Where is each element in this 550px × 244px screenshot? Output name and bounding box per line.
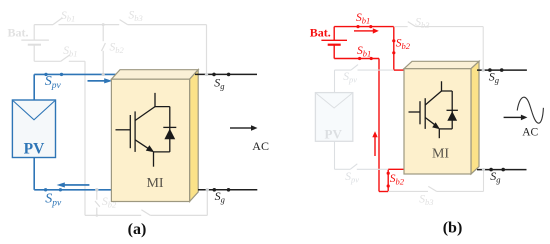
node Spv bottom 1 (a) bbox=[44, 188, 47, 191]
node Sg bottom 2 (a) bbox=[227, 188, 231, 192]
arrow current return vertical (b) bbox=[372, 131, 377, 156]
svg-text:Sb1: Sb1 bbox=[357, 45, 371, 59]
wire MI top input (b) bbox=[394, 69, 405, 71]
PV chevron (a) bbox=[13, 101, 55, 120]
diode D1 line (a) bbox=[169, 107, 171, 152]
svg-text:Spv: Spv bbox=[345, 171, 359, 185]
node Spv top 1 (a) bbox=[44, 73, 47, 76]
svg-text:Sb2: Sb2 bbox=[110, 42, 125, 56]
node Sb1 second 2 (b) bbox=[370, 57, 373, 60]
svg-text:PV: PV bbox=[325, 127, 343, 142]
svg-text:MI: MI bbox=[432, 146, 449, 161]
node Sb1 second 1 (b) bbox=[358, 57, 361, 60]
wire MI bottom input (b) bbox=[388, 168, 405, 170]
wire Sb2 bottom branch (a) bbox=[96, 190, 98, 216]
wire Sg top (b) bbox=[477, 69, 527, 71]
switch Spv top lever (b) bbox=[351, 65, 358, 71]
arrow AC (a) bbox=[230, 125, 258, 131]
svg-text:Sg: Sg bbox=[215, 189, 225, 205]
IGBT collector stub (b) bbox=[442, 81, 453, 91]
node Sb3 bottom on Sg wire overlay (b) bbox=[482, 168, 485, 171]
IGBT body bar (a) bbox=[134, 111, 136, 151]
switch Spv bottom lever (b) bbox=[350, 164, 357, 170]
svg-text:Spv: Spv bbox=[343, 71, 357, 85]
switch bottom rail lever (a) bbox=[141, 210, 150, 216]
node Sb2 top 2 (b) bbox=[392, 51, 395, 54]
svg-text:Sb3: Sb3 bbox=[129, 10, 143, 24]
IGBT bottom horizontal (a) bbox=[154, 151, 170, 153]
switch Sb2 bottom lever (a) bbox=[95, 201, 100, 207]
IGBT Q2 (b) bbox=[409, 81, 458, 138]
node Sb2 bottom 1 (b) bbox=[387, 172, 390, 175]
node Sg bottom 2 (b) bbox=[501, 168, 505, 172]
wire Sb3 bottom (b, faded) bbox=[388, 170, 483, 192]
node Sg top 1 (b) bbox=[488, 68, 492, 72]
MI inverter box (a) right face bbox=[190, 70, 199, 202]
IGBT gate lead (a) bbox=[116, 129, 131, 131]
arrow current bottom (a) bbox=[57, 182, 90, 187]
IGBT gate bar (a) bbox=[129, 115, 131, 148]
node junction top rail (a) bbox=[102, 23, 105, 26]
node Sg bottom 1 (a) bbox=[213, 188, 217, 192]
svg-text:(a): (a) bbox=[128, 221, 147, 238]
node Sg top 2 (a) bbox=[227, 73, 231, 77]
wire Sb2 top vertical (b) bbox=[393, 27, 395, 71]
svg-text:Sb2: Sb2 bbox=[390, 173, 405, 187]
MI inverter box (b) top face bbox=[404, 61, 479, 68]
IGBT gate lead (b) bbox=[409, 111, 421, 113]
wire PV bottom (a) bbox=[34, 158, 111, 190]
wire Sb3 top (b, faded) bbox=[394, 27, 483, 71]
svg-text:Sg: Sg bbox=[489, 69, 499, 85]
svg-text:Sb1: Sb1 bbox=[61, 10, 75, 24]
svg-text:Spv: Spv bbox=[45, 74, 62, 91]
node Sb2 top 1 (b) bbox=[392, 39, 395, 42]
IGBT emitter lead (a) bbox=[153, 152, 155, 167]
node top rail to Sg wire overlay (a) bbox=[205, 73, 208, 76]
wire return vertical (b) bbox=[378, 59, 380, 192]
IGBT collector stub (a) bbox=[155, 93, 170, 107]
wire bottom-rail right riser (a) bbox=[206, 190, 208, 216]
PV module (b, faded) bbox=[315, 93, 352, 142]
MI inverter box (b) front face bbox=[404, 69, 471, 174]
IGBT collector diagonal (a) bbox=[135, 107, 155, 121]
node Sb1 top 1 (b) bbox=[356, 25, 359, 28]
wire bottom jog (b) bbox=[379, 191, 388, 193]
svg-text:MI: MI bbox=[146, 176, 163, 191]
node Sb2 bottom 2 (b) bbox=[387, 184, 390, 187]
IGBT emitter diagonal (b) bbox=[425, 118, 435, 126]
wire Sb2 bottom vertical (b) bbox=[387, 169, 389, 191]
wire Sg bottom (b) bbox=[477, 169, 527, 171]
svg-text:Sb1: Sb1 bbox=[356, 12, 370, 26]
IGBT bottom horizontal (b) bbox=[439, 128, 452, 130]
IGBT emitter arrowhead (a) bbox=[146, 145, 154, 152]
svg-text:Sg: Sg bbox=[214, 75, 224, 91]
wire top rail (a) bbox=[34, 25, 206, 75]
svg-text:Sb1: Sb1 bbox=[63, 45, 77, 59]
wire second rail (b) bbox=[334, 59, 405, 192]
switch Sb2 top branch lever (a) bbox=[102, 43, 106, 51]
svg-text:Sb2: Sb2 bbox=[396, 38, 411, 52]
node Sg top 1 (a) bbox=[212, 73, 216, 77]
svg-text:AC: AC bbox=[522, 127, 538, 139]
svg-text:Sb3: Sb3 bbox=[419, 194, 433, 208]
arrow current top rail (b) bbox=[354, 28, 379, 33]
IGBT emitter arrowhead (b) bbox=[432, 122, 440, 129]
svg-text:Bat.: Bat. bbox=[310, 26, 331, 40]
svg-text:Bat.: Bat. bbox=[8, 25, 29, 39]
switch Sb3 bottom lever (b) bbox=[428, 186, 436, 191]
node Sb2 bottom on blue wire overlay (a) bbox=[95, 188, 98, 191]
IGBT Q1 (a) bbox=[116, 93, 177, 167]
node Sb2 bottom on rail (a) bbox=[96, 214, 99, 217]
svg-text:Sg: Sg bbox=[490, 169, 500, 185]
switch Sb3 top (a) lever bbox=[120, 20, 128, 25]
svg-text:Sb3: Sb3 bbox=[415, 17, 429, 31]
wire Sb2 top branch (a) bbox=[102, 25, 104, 75]
wire Sb3 bottom right riser (b) bbox=[483, 170, 485, 192]
MI inverter box (a) front face bbox=[111, 79, 189, 201]
wire PV top (b, faded) bbox=[335, 70, 394, 93]
IGBT collector diagonal (b) bbox=[425, 91, 441, 105]
MI inverter box (b) right face bbox=[471, 61, 479, 174]
diode D2 line (b) bbox=[451, 91, 453, 129]
node Sb1 top 2 (b) bbox=[369, 25, 372, 28]
node Sb3 on Sg wire overlay (b) bbox=[482, 69, 485, 72]
battery Bat (a, faded) bbox=[21, 25, 49, 62]
node Sg top 2 (b) bbox=[500, 68, 504, 72]
wire Sg top (a) bbox=[195, 73, 257, 75]
switch Sb1 second lever (a) bbox=[61, 55, 70, 62]
wire left drop x=85 (a) bbox=[84, 61, 86, 215]
svg-text:PV: PV bbox=[24, 141, 45, 158]
wire second rail (a) bbox=[34, 61, 85, 215]
IGBT body bar (b) bbox=[424, 98, 426, 129]
node Spv top 2 (a) bbox=[60, 73, 63, 76]
diode D1 triangle (a) bbox=[164, 129, 175, 140]
diode D2 triangle (b) bbox=[447, 111, 457, 120]
diode D1 cathode bar (a) bbox=[163, 126, 176, 128]
node Sb2 on blue wire overlay (a) bbox=[102, 73, 105, 76]
switch Sb1 top (a) lever bbox=[53, 18, 63, 25]
node bottom rail to Sg wire overlay (a) bbox=[206, 188, 209, 191]
switch Sb3 top lever (b) bbox=[408, 22, 416, 27]
MI inverter box (a) top face bbox=[111, 70, 198, 80]
node Spv bottom 2 (a) bbox=[59, 188, 62, 191]
PV chevron (b) bbox=[316, 93, 352, 108]
sine wave symbol (b) bbox=[517, 97, 543, 123]
wire PV bottom (b, faded) bbox=[335, 141, 389, 169]
IGBT emitter lead (b) bbox=[438, 129, 440, 138]
wire top-rail right drop (a) bbox=[206, 25, 208, 75]
arrow AC (b) bbox=[504, 115, 528, 121]
wire bottom rail (a) bbox=[85, 190, 207, 216]
IGBT emitter diagonal (a) bbox=[135, 140, 149, 150]
wire Sb3 right drop (b) bbox=[482, 27, 484, 71]
IGBT gate bar (b) bbox=[419, 101, 421, 124]
svg-text:Spv: Spv bbox=[45, 192, 62, 209]
svg-text:AC: AC bbox=[252, 139, 269, 153]
wire Sg bottom (a) bbox=[198, 189, 257, 191]
svg-text:(b): (b) bbox=[443, 220, 463, 237]
wire PV top (a) bbox=[34, 74, 116, 100]
battery Bat (b, red) bbox=[321, 27, 347, 59]
node Sg bottom 1 (b) bbox=[489, 168, 493, 172]
arrow current top (a) bbox=[88, 78, 113, 83]
diode D2 cathode bar (b) bbox=[447, 109, 458, 111]
wire top rail (b) bbox=[334, 27, 405, 71]
PV module (a) bbox=[12, 100, 55, 158]
